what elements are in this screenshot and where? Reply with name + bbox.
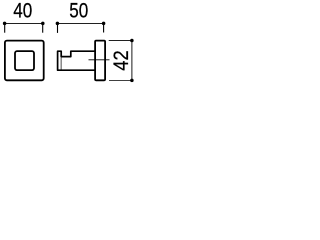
svg-text:40: 40 [13, 0, 32, 23]
dimension dot top [130, 39, 134, 43]
svg-text:42: 42 [109, 50, 133, 70]
dimension 42 extension top [109, 40, 132, 42]
dimension dot bottom [130, 79, 134, 83]
dimension dot right [41, 22, 45, 26]
svg-text:50: 50 [69, 0, 88, 23]
side view wall plate [95, 41, 105, 81]
dimension 42 extension bottom [109, 80, 132, 82]
dimension line 40 [5, 23, 43, 32]
front view inner square [15, 51, 34, 70]
front view outer square [5, 41, 44, 81]
dimension dot left [56, 22, 60, 26]
dimension line 42 [131, 41, 133, 81]
dimension dot left [3, 22, 7, 26]
dimension line 50 [57, 23, 103, 32]
dimension dot right [102, 22, 106, 26]
side view inner edge (thin) [60, 57, 62, 69]
side view hook profile [58, 51, 96, 70]
plate centerline [89, 59, 110, 61]
